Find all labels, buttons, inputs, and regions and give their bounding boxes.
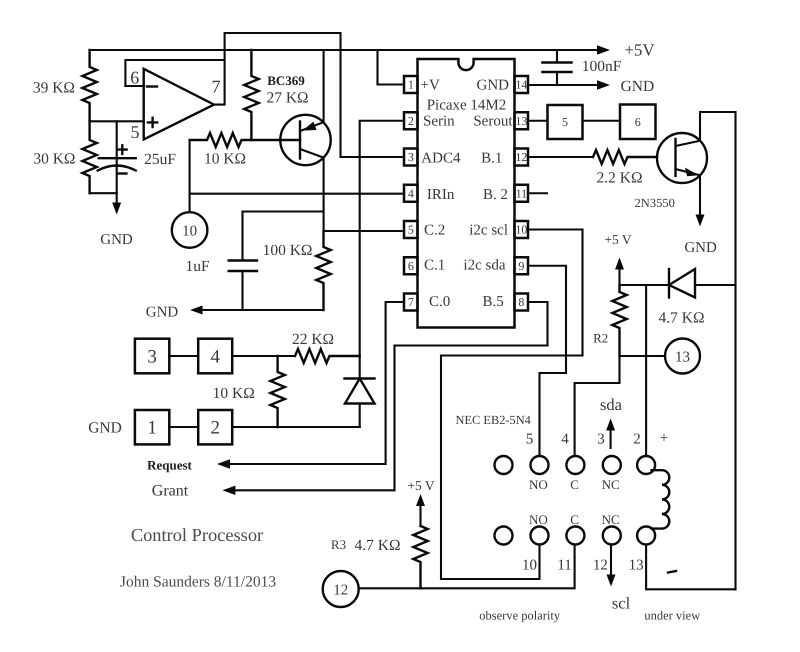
svg-text:11: 11	[557, 558, 571, 574]
pin 1 box	[404, 76, 418, 93]
wire op-amp non-inverting input	[90, 120, 144, 122]
svg-text:100nF: 100nF	[582, 58, 622, 75]
relay pin 3 NC top	[603, 456, 621, 474]
svg-text:Grant: Grant	[152, 483, 189, 500]
svg-text:C.1: C.1	[424, 258, 445, 274]
svg-text:C.2: C.2	[424, 222, 445, 238]
svg-text:2: 2	[210, 417, 220, 438]
svg-text:2: 2	[633, 432, 641, 448]
svg-text:Control Processor: Control Processor	[131, 525, 263, 545]
transistor Q1 BC369	[280, 115, 330, 165]
svg-text:5: 5	[526, 432, 534, 448]
svg-text:39 KΩ: 39 KΩ	[33, 80, 75, 97]
svg-text:7: 7	[408, 295, 414, 309]
svg-text:2.2 KΩ: 2.2 KΩ	[597, 170, 643, 187]
wire 100K top	[243, 210, 324, 212]
wire ADC4 vertical drop	[339, 33, 341, 157]
resistor 22 KOhm	[295, 349, 360, 363]
wire GND rail (pin 14)	[528, 84, 598, 86]
resistor 2.2 KOhm	[593, 150, 657, 164]
svg-text:10: 10	[522, 558, 537, 574]
sda arrow	[606, 419, 615, 449]
relay pin 4 C top	[566, 456, 584, 474]
resistor 10 KOhm (BC369 base)	[190, 133, 300, 147]
svg-text:B. 2: B. 2	[483, 187, 508, 203]
svg-text:C: C	[570, 477, 579, 492]
box 1	[135, 410, 169, 444]
capacitor 100nF	[542, 50, 571, 85]
svg-text:Request: Request	[147, 458, 192, 473]
ground GND (1uF/100K loop)	[146, 305, 203, 321]
wire box 3 to box 4	[169, 355, 198, 357]
scl arrow	[607, 545, 616, 587]
node 13 circle	[665, 339, 700, 374]
box 4	[198, 339, 232, 374]
svg-text:2: 2	[408, 114, 414, 128]
svg-text:Serout: Serout	[473, 114, 513, 130]
svg-text:10: 10	[182, 224, 197, 240]
svg-text:scl: scl	[612, 594, 631, 613]
svg-text:1uF: 1uF	[185, 258, 210, 275]
svg-text:3: 3	[147, 346, 157, 367]
svg-text:R3: R3	[331, 537, 346, 552]
wire base node down to IRIn wire	[189, 140, 191, 194]
svg-text:NC: NC	[602, 477, 620, 492]
relay pin 2 coil+	[637, 456, 655, 474]
svg-text:4: 4	[408, 187, 414, 201]
wire box 5 to box 6	[583, 120, 621, 122]
svg-text:14: 14	[515, 78, 527, 92]
relay pad bottom unused	[495, 527, 513, 545]
svg-text:i2c scl: i2c scl	[469, 222, 508, 238]
capacitor 25uF	[98, 121, 136, 193]
box 2	[198, 410, 232, 444]
relay pin 10 NO bottom	[531, 527, 549, 545]
wire C.0 (pin 7) to Request	[230, 302, 404, 464]
pin 2 box	[404, 112, 418, 129]
svg-text:8: 8	[518, 295, 524, 309]
svg-text:GND: GND	[146, 305, 179, 321]
ground GND (below 25uF)	[100, 193, 133, 248]
svg-text:3: 3	[408, 150, 414, 164]
svg-text:13: 13	[515, 114, 527, 128]
svg-text:C.0: C.0	[429, 294, 450, 310]
diode D2 (coil clamp)	[669, 269, 695, 298]
relay pin 11 C bottom	[566, 527, 584, 545]
svg-text:4: 4	[210, 346, 220, 367]
svg-text:6: 6	[408, 259, 414, 273]
svg-text:6: 6	[635, 115, 641, 129]
svg-text:+V: +V	[421, 78, 440, 94]
svg-text:6: 6	[130, 68, 139, 88]
power +5 V (R3)	[407, 478, 434, 526]
resistor 39 KOhm	[82, 50, 96, 121]
pin 12 box	[515, 149, 529, 166]
svg-text:C: C	[570, 512, 579, 527]
svg-text:+5 V: +5 V	[407, 478, 434, 493]
pin 3 box	[404, 149, 418, 166]
svg-text:7: 7	[212, 76, 221, 96]
svg-text:BC369: BC369	[267, 73, 305, 88]
relay pin 13 coil-	[637, 527, 655, 545]
svg-text:ADC4: ADC4	[421, 151, 461, 167]
ground GND (2N3550 emitter)	[684, 175, 717, 256]
pin 7 box	[404, 294, 418, 311]
wire +5V node horizontal	[620, 284, 736, 286]
wire IRIn (pin 4)	[190, 193, 404, 195]
box 3	[135, 339, 169, 374]
box 5	[548, 105, 583, 139]
svg-text:1: 1	[147, 417, 157, 438]
wire pin 13 to box 5	[528, 120, 548, 122]
svg-text:B.1: B.1	[481, 151, 502, 167]
wire 2N3550 collector to right bus	[700, 112, 736, 589]
pin 9 box	[515, 257, 529, 274]
svg-text:B.5: B.5	[483, 294, 504, 310]
pin 10 box	[515, 221, 529, 238]
svg-text:GND: GND	[621, 78, 655, 95]
wire box 1 to box 2	[169, 426, 198, 428]
relay coil	[652, 470, 670, 528]
wire BC369 emitter to +5V rail	[323, 50, 325, 122]
resistor 10 KOhm (pull-down)	[270, 356, 284, 427]
resistor 27 KOhm	[244, 50, 258, 140]
node 12 circle	[323, 571, 359, 607]
wire relay pin 13 to right bus	[646, 545, 735, 590]
op-amp U1	[144, 69, 214, 140]
svg-text:GND: GND	[100, 232, 133, 248]
wire +5V rail	[90, 49, 598, 51]
wire +V (pin 1) from rail	[378, 50, 405, 85]
label - (coil polarity)	[668, 571, 676, 573]
pin 11 box	[515, 185, 529, 202]
svg-text:GND: GND	[684, 240, 717, 256]
GND rail arrowhead	[597, 80, 610, 89]
wire bottom loop (30K to 25uF)	[90, 192, 117, 194]
svg-text:+5 V: +5 V	[604, 232, 631, 247]
svg-text:NEC EB2-5N4: NEC EB2-5N4	[456, 413, 531, 427]
svg-text:NO: NO	[529, 477, 548, 492]
wire box 2 to diode node	[232, 426, 360, 428]
pin 14 box	[515, 76, 529, 93]
resistor 100 KOhm	[316, 231, 330, 310]
svg-text:GND: GND	[477, 78, 510, 94]
svg-text:observe polarity: observe polarity	[479, 609, 561, 623]
svg-text:10: 10	[515, 223, 527, 237]
svg-text:11: 11	[516, 187, 528, 201]
pin 5 box	[404, 221, 418, 238]
svg-text:NC: NC	[602, 512, 620, 527]
pin 13 box	[515, 112, 529, 129]
svg-text:25uF: 25uF	[144, 151, 176, 168]
svg-text:5: 5	[131, 122, 140, 142]
svg-text:13: 13	[629, 558, 644, 574]
relay pad top unused	[495, 456, 513, 474]
wire box 4 to 22K node	[232, 355, 295, 357]
svg-text:Serin: Serin	[423, 114, 455, 130]
wire inverting input	[125, 85, 143, 87]
svg-text:10 KΩ: 10 KΩ	[204, 151, 246, 168]
wire pin 11 stub	[528, 192, 547, 194]
svg-text:13: 13	[675, 350, 690, 366]
Grant arrowhead	[222, 486, 235, 495]
svg-text:4.7 KΩ: 4.7 KΩ	[659, 310, 705, 327]
svg-text:9: 9	[518, 259, 524, 273]
svg-text:sda: sda	[600, 395, 623, 414]
+5V rail arrowhead	[597, 45, 610, 54]
wire i2c sda (pin 9) to relay NO top	[528, 266, 566, 456]
svg-text:12: 12	[593, 558, 608, 574]
svg-text:+: +	[660, 431, 668, 447]
svg-text:NO: NO	[529, 512, 548, 527]
relay pin 12 NC bottom	[603, 527, 621, 545]
wire pin3 ADC4 stub	[341, 156, 405, 158]
svg-text:5: 5	[408, 223, 414, 237]
svg-text:22 KΩ: 22 KΩ	[292, 331, 334, 348]
svg-text:100 KΩ: 100 KΩ	[263, 242, 313, 259]
box 6	[620, 105, 656, 140]
svg-text:3: 3	[597, 432, 605, 448]
wire Serin (pin 2)	[360, 121, 404, 356]
svg-text:12: 12	[515, 150, 527, 164]
wire R2 bottom to relay pin 4 C	[575, 356, 620, 456]
svg-text:2N3550: 2N3550	[635, 196, 675, 210]
svg-text:10 KΩ: 10 KΩ	[213, 385, 255, 402]
capacitor 1uF	[229, 212, 257, 311]
svg-text:27 KΩ: 27 KΩ	[266, 90, 308, 107]
transistor Q2 2N3550	[657, 133, 707, 183]
svg-text:4.7 KΩ: 4.7 KΩ	[355, 537, 401, 554]
resistor R3 4.7 KOhm	[413, 526, 427, 588]
svg-text:Picaxe 14M2: Picaxe 14M2	[427, 97, 507, 113]
svg-text:IRIn: IRIn	[427, 187, 455, 203]
wire relay pin 11 to node 12 line	[359, 545, 575, 589]
relay pin 5 NO top	[531, 456, 549, 474]
svg-text:1: 1	[408, 78, 414, 92]
wire BC369 collector down to C.2	[324, 158, 404, 231]
wire GND loop bottom	[203, 309, 324, 311]
wire R2 bottom to node 13	[620, 355, 666, 357]
svg-text:i2c sda: i2c sda	[463, 258, 505, 274]
wire i2c scl (pin 10) to relay NO bottom	[441, 230, 583, 580]
wire +5V node to relay coil+	[645, 285, 647, 456]
svg-text:5: 5	[562, 115, 568, 129]
svg-text:GND: GND	[88, 420, 122, 437]
resistor 30 KOhm	[82, 121, 96, 193]
pin 4 box	[404, 185, 418, 202]
node 10 circle	[172, 212, 208, 248]
svg-text:under view: under view	[644, 609, 700, 623]
wire down to node 10	[189, 194, 191, 213]
pin 6 box	[404, 257, 418, 274]
svg-text:12: 12	[333, 583, 348, 599]
svg-text:30 KΩ: 30 KΩ	[33, 151, 75, 168]
diode D1	[345, 356, 375, 428]
svg-text:John Saunders 8/11/2013: John Saunders 8/11/2013	[120, 574, 276, 591]
power +5 V (R2)	[604, 232, 631, 285]
wire pin 12 (B.1) to 2.2K	[528, 156, 593, 158]
wire B.5 (pin 8) to Grant	[235, 302, 547, 490]
svg-text:+5V: +5V	[624, 41, 655, 60]
Request arrowhead	[217, 459, 230, 468]
svg-text:4: 4	[561, 432, 569, 448]
svg-text:R2: R2	[593, 331, 608, 346]
pin 8 box	[515, 294, 529, 311]
wire feedback loop	[125, 60, 224, 86]
wire op-amp output up and over	[214, 33, 341, 105]
IC U2 Picaxe 14M2 body	[418, 59, 515, 328]
resistor R2 4.7 KOhm	[612, 285, 626, 356]
